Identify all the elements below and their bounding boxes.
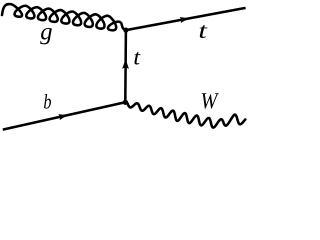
label t outgoing — [200, 25, 208, 38]
quark b (incoming line) — [3, 102, 126, 129]
quark t (outgoing line) — [126, 8, 246, 30]
label W — [202, 93, 219, 108]
label b — [44, 94, 51, 109]
arrow on t line — [180, 17, 189, 23]
internal t propagator (vertical) — [124, 30, 127, 102]
vertex dot V2 — [123, 100, 128, 105]
arrow on b line — [58, 114, 67, 120]
label t internal — [134, 52, 140, 65]
gluon g (incoming curly line) — [2, 4, 126, 30]
W boson (outgoing wavy line) — [125, 101, 245, 128]
vertex dot V1 — [123, 28, 128, 33]
arrow on internal t (up) — [122, 59, 129, 69]
label g — [40, 28, 52, 44]
